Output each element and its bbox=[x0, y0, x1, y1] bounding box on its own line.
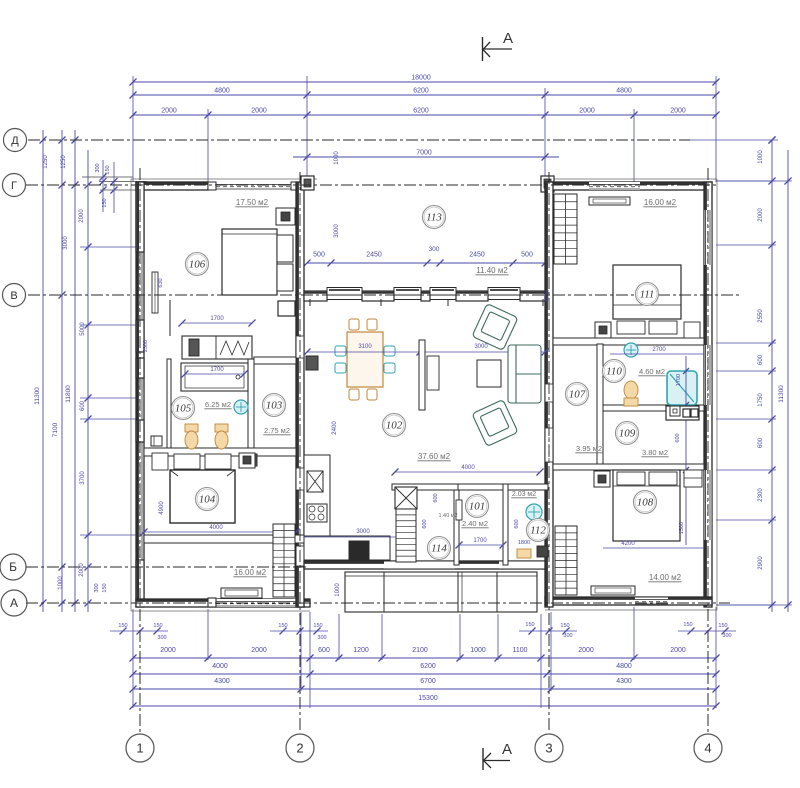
wardrobe room 111 bbox=[554, 194, 577, 264]
sink room 110 bbox=[624, 343, 638, 357]
svg-text:1700: 1700 bbox=[210, 367, 224, 373]
svg-text:2000: 2000 bbox=[670, 108, 686, 115]
svg-text:4900: 4900 bbox=[159, 501, 165, 515]
dim 3000 kitchen bbox=[304, 536, 396, 538]
svg-text:1100: 1100 bbox=[512, 647, 527, 654]
svg-text:2000: 2000 bbox=[758, 208, 764, 222]
wall between 114 and 101 bbox=[454, 490, 459, 565]
dimension chain top 18000 bbox=[133, 81, 716, 83]
svg-text:2000: 2000 bbox=[578, 647, 594, 654]
bed pillows room 106 bbox=[277, 235, 293, 262]
svg-text:109: 109 bbox=[619, 428, 636, 440]
svg-text:4800: 4800 bbox=[214, 88, 230, 95]
grid axis line 3 bbox=[548, 172, 550, 733]
sink room 112 bbox=[526, 504, 542, 520]
axis overlay Б bbox=[26, 566, 306, 568]
axis overlay 3 bbox=[548, 172, 550, 733]
sink room 103 bbox=[234, 400, 248, 414]
svg-text:4200: 4200 bbox=[621, 541, 635, 547]
wall right-wing top bbox=[545, 182, 712, 190]
room label 114 bbox=[428, 537, 451, 560]
mini dims top left 300 150 bbox=[82, 176, 133, 178]
left dim chain 11800 bbox=[74, 130, 76, 612]
shaft X box room 114 bbox=[395, 487, 417, 509]
svg-text:11300: 11300 bbox=[778, 385, 785, 403]
coffee table room 102 bbox=[477, 360, 501, 387]
svg-text:4800: 4800 bbox=[616, 663, 632, 670]
svg-text:11300: 11300 bbox=[34, 387, 41, 405]
dimension terrace top 500-2450-300-2450-500 bbox=[307, 262, 545, 264]
svg-text:17.50 м2: 17.50 м2 bbox=[236, 198, 269, 207]
svg-text:2: 2 bbox=[296, 741, 303, 756]
svg-text:3.80 м2: 3.80 м2 bbox=[642, 448, 668, 457]
left dim chain segments bbox=[87, 150, 89, 612]
svg-text:600: 600 bbox=[514, 519, 520, 528]
svg-text:6700: 6700 bbox=[420, 678, 436, 685]
svg-text:300: 300 bbox=[563, 633, 572, 639]
svg-text:7100: 7100 bbox=[52, 422, 59, 437]
bottom chain row 4300-6700-4300 bbox=[133, 688, 716, 690]
wall between rooms 110 and 109 bbox=[603, 405, 704, 411]
svg-text:150: 150 bbox=[153, 623, 162, 629]
svg-text:1000: 1000 bbox=[470, 647, 486, 654]
grid bubble А bbox=[1, 590, 27, 616]
wall between bathrooms and room 104 bbox=[144, 448, 296, 456]
axis overlay Г bbox=[26, 184, 716, 186]
dim 1700 bathtub bbox=[185, 373, 244, 375]
wall left-wing top bbox=[136, 182, 208, 190]
svg-text:1.40 м2: 1.40 м2 bbox=[438, 513, 457, 519]
grid bubble 1 bbox=[126, 734, 154, 762]
nightstand dark room 111 bbox=[595, 322, 611, 338]
svg-text:600: 600 bbox=[318, 647, 330, 654]
wall left-wing right (axis 2) bbox=[296, 182, 304, 607]
dark box room 112 bbox=[537, 546, 548, 557]
svg-text:150: 150 bbox=[118, 623, 127, 629]
right dim chain segments bbox=[771, 140, 773, 612]
room label 108 bbox=[634, 491, 657, 514]
svg-text:2700: 2700 bbox=[652, 347, 666, 353]
dimension chain top 2000s-6200 bbox=[133, 114, 716, 116]
armchair bottom room 102 bbox=[472, 400, 518, 447]
svg-text:3: 3 bbox=[545, 741, 552, 756]
svg-text:104: 104 bbox=[199, 494, 216, 506]
dim extension line x686 bbox=[685, 356, 687, 545]
room label 111 bbox=[636, 283, 659, 306]
shelf ladder left terrace bbox=[273, 524, 295, 597]
armchair top room 102 bbox=[472, 304, 518, 351]
svg-text:4300: 4300 bbox=[214, 678, 230, 685]
svg-text:2000: 2000 bbox=[251, 647, 267, 654]
svg-text:1800: 1800 bbox=[518, 540, 530, 546]
nightstand dark right room 104 bbox=[239, 453, 255, 468]
svg-text:1000: 1000 bbox=[334, 151, 340, 165]
extension lines bottom bbox=[132, 609, 134, 708]
left dim chain outer 11300 bbox=[42, 130, 44, 612]
svg-text:300: 300 bbox=[429, 246, 440, 253]
wall left-wing bottom bbox=[136, 599, 310, 607]
pillows room 108 bbox=[617, 472, 645, 485]
svg-text:1200: 1200 bbox=[353, 647, 369, 654]
pillows room 111 bbox=[617, 321, 645, 334]
svg-text:1700: 1700 bbox=[473, 538, 487, 544]
svg-text:A: A bbox=[502, 741, 512, 758]
nightstand right room 111 bbox=[684, 322, 700, 338]
svg-text:4.60 м2: 4.60 м2 bbox=[639, 367, 665, 376]
svg-text:2450: 2450 bbox=[469, 252, 485, 259]
washbasin counter room 105 bbox=[182, 336, 252, 359]
wall stub room 106 left of bath bbox=[169, 300, 171, 336]
dim 2700 room 110 bbox=[610, 353, 704, 355]
svg-text:300: 300 bbox=[722, 633, 731, 639]
wall segment above room 103 bbox=[254, 357, 296, 364]
room label 112 bbox=[527, 519, 550, 542]
svg-text:11.40 м2: 11.40 м2 bbox=[476, 266, 508, 275]
grid bubble Г bbox=[3, 174, 26, 197]
svg-text:2300: 2300 bbox=[143, 340, 149, 352]
svg-text:6.25 м2: 6.25 м2 bbox=[205, 400, 231, 409]
wall middle bottom bbox=[304, 561, 548, 569]
room label 101 bbox=[466, 495, 489, 518]
svg-text:112: 112 bbox=[530, 525, 546, 537]
svg-text:107: 107 bbox=[569, 389, 586, 401]
svg-text:1250: 1250 bbox=[43, 155, 49, 169]
svg-text:600: 600 bbox=[422, 519, 428, 528]
svg-text:113: 113 bbox=[426, 212, 442, 224]
bed room 108 bbox=[613, 470, 680, 541]
wall middle on axis В with windows bbox=[304, 294, 548, 296]
svg-text:101: 101 bbox=[469, 501, 486, 513]
svg-text:105: 105 bbox=[175, 403, 192, 415]
axis overlay Д bbox=[28, 139, 690, 141]
grid axis line В bbox=[28, 294, 740, 296]
left dim chain 7100 bbox=[61, 130, 63, 612]
svg-text:103: 103 bbox=[266, 400, 283, 412]
svg-text:1000: 1000 bbox=[758, 150, 764, 164]
svg-text:5000: 5000 bbox=[80, 322, 86, 336]
grid axis line Б bbox=[26, 566, 306, 568]
svg-text:600: 600 bbox=[675, 433, 681, 442]
shelf room 111 top bbox=[589, 197, 630, 205]
room label 110 bbox=[603, 360, 626, 383]
grid axis line 2 bbox=[299, 172, 301, 733]
svg-text:110: 110 bbox=[606, 366, 622, 378]
svg-text:Б: Б bbox=[9, 560, 17, 574]
room label 103 bbox=[263, 394, 286, 417]
kitchen sink bbox=[307, 471, 323, 492]
svg-text:4: 4 bbox=[704, 741, 711, 756]
svg-text:600: 600 bbox=[758, 437, 764, 448]
svg-text:7000: 7000 bbox=[416, 150, 432, 157]
kitchen counter vertical bbox=[304, 455, 330, 536]
table on left terrace bbox=[221, 588, 262, 598]
terrace column right bbox=[541, 176, 554, 192]
nightstand left room 104 bbox=[152, 453, 168, 470]
wall left-wing left bbox=[136, 182, 144, 607]
axis overlay В bbox=[28, 294, 740, 296]
svg-text:Д: Д bbox=[11, 135, 19, 147]
svg-text:2000: 2000 bbox=[251, 108, 267, 115]
column pier near kitchen top bbox=[306, 356, 318, 370]
svg-text:150: 150 bbox=[105, 165, 111, 174]
bottom mini dims axis3 bbox=[519, 630, 577, 632]
svg-text:2000: 2000 bbox=[79, 209, 85, 223]
bed room 111 bbox=[613, 265, 681, 319]
svg-text:2550: 2550 bbox=[758, 309, 764, 323]
toilet 1 room 105 bbox=[185, 424, 198, 432]
pillows room 104 bbox=[174, 454, 200, 469]
svg-text:150: 150 bbox=[102, 198, 108, 207]
bathtub room 105 bbox=[181, 363, 248, 391]
section mark A top bbox=[482, 37, 484, 61]
svg-text:1500: 1500 bbox=[679, 522, 685, 534]
svg-text:11800: 11800 bbox=[65, 385, 72, 403]
toilet room 112 bbox=[517, 549, 531, 558]
svg-text:3.95 м2: 3.95 м2 bbox=[576, 444, 602, 453]
wall right-wing left (axis 3) bbox=[545, 182, 553, 607]
wardrobe small room 108 bbox=[684, 470, 702, 487]
svg-text:1750: 1750 bbox=[758, 393, 764, 407]
svg-text:3100: 3100 bbox=[358, 344, 372, 350]
svg-text:A: A bbox=[503, 30, 513, 47]
dim 3100 3000 room 102 bbox=[307, 351, 545, 353]
svg-text:150: 150 bbox=[683, 622, 692, 628]
grid axis line А bbox=[26, 602, 730, 604]
bottom mini dims axis4 bbox=[678, 630, 736, 632]
dim 4000 room 104 bbox=[144, 531, 296, 533]
grid axis line Д bbox=[28, 139, 690, 141]
svg-text:3000: 3000 bbox=[356, 529, 370, 535]
bed in room 106 bbox=[222, 229, 277, 295]
dimension chain top 4800-6200-4800 bbox=[133, 94, 716, 96]
svg-text:2000: 2000 bbox=[79, 563, 85, 577]
svg-text:300: 300 bbox=[94, 583, 100, 592]
svg-text:2100: 2100 bbox=[412, 647, 428, 654]
svg-text:108: 108 bbox=[637, 497, 654, 509]
svg-text:500: 500 bbox=[521, 252, 533, 259]
bottom chain row 15300 bbox=[133, 705, 716, 707]
svg-text:4030: 4030 bbox=[545, 290, 551, 302]
svg-text:2000: 2000 bbox=[161, 108, 177, 115]
svg-text:150: 150 bbox=[718, 623, 727, 629]
svg-text:630: 630 bbox=[158, 278, 164, 287]
svg-text:6200: 6200 bbox=[413, 108, 429, 115]
dimension 7000 above terrace bbox=[293, 156, 559, 158]
washing machine room 109 bbox=[666, 406, 699, 420]
axis overlay 4 bbox=[707, 168, 709, 733]
svg-text:1000: 1000 bbox=[335, 583, 341, 597]
kitchen dark oven bbox=[349, 541, 369, 560]
axis overlay 2 bbox=[299, 172, 301, 733]
svg-text:3000: 3000 bbox=[334, 224, 340, 238]
svg-text:18000: 18000 bbox=[411, 75, 431, 82]
kitchen stove bbox=[307, 504, 327, 522]
tv unit room 102 bbox=[419, 340, 425, 410]
bed room 104 bbox=[170, 470, 235, 523]
svg-text:В: В bbox=[10, 290, 17, 302]
svg-text:600: 600 bbox=[80, 400, 86, 411]
electric panel box on left wall bbox=[151, 436, 162, 446]
right ticks connector lines bbox=[716, 180, 776, 182]
tv cabinet room 106 bbox=[276, 208, 295, 225]
bottom chain row 4000-6200-4800 bbox=[133, 673, 716, 675]
sofa room 102 bbox=[508, 345, 541, 403]
porch divider lines bbox=[383, 572, 385, 612]
wardrobe shelves left room 108 bbox=[555, 526, 577, 595]
svg-text:Г: Г bbox=[11, 180, 17, 192]
grid axis line 4 bbox=[707, 168, 709, 733]
svg-text:15300: 15300 bbox=[418, 695, 438, 702]
svg-text:3000: 3000 bbox=[474, 344, 488, 350]
window piers on left wall bbox=[136, 182, 144, 252]
svg-text:3000: 3000 bbox=[63, 236, 69, 250]
svg-text:6200: 6200 bbox=[413, 88, 429, 95]
dim 4200 room 108 bbox=[603, 547, 704, 549]
bottom mini dims axis2 bbox=[270, 630, 328, 632]
room label 107 bbox=[566, 383, 589, 406]
dim 1700 room 101 area bbox=[459, 544, 503, 546]
grid bubble В bbox=[3, 284, 26, 307]
svg-text:4000: 4000 bbox=[209, 525, 223, 531]
svg-text:2300: 2300 bbox=[758, 488, 764, 502]
svg-text:2400: 2400 bbox=[332, 421, 338, 435]
svg-text:4000: 4000 bbox=[212, 663, 228, 670]
section mark A bottom bbox=[482, 748, 484, 770]
kitchen counter bottom bbox=[304, 536, 390, 560]
grid bubble 3 bbox=[535, 734, 563, 762]
wall left of room 105 bbox=[167, 359, 171, 448]
room label 105 bbox=[172, 397, 195, 420]
axis overlay А bbox=[26, 602, 730, 604]
svg-text:6200: 6200 bbox=[420, 663, 436, 670]
dim 1700 washbasins bbox=[182, 322, 252, 324]
sink narrow room 101 bbox=[456, 500, 462, 520]
svg-text:3700: 3700 bbox=[80, 471, 86, 485]
radiator room 106 bbox=[152, 272, 158, 313]
svg-text:1250: 1250 bbox=[61, 155, 67, 169]
dining chairs cyan sides bbox=[335, 346, 346, 356]
grid bubble Д bbox=[4, 129, 27, 152]
room label 113 bbox=[423, 206, 446, 229]
wall top of rooms 101 112 bbox=[458, 484, 548, 490]
room label 109 bbox=[616, 422, 639, 445]
svg-text:150: 150 bbox=[313, 623, 322, 629]
svg-text:106: 106 bbox=[189, 259, 206, 271]
svg-text:1000: 1000 bbox=[58, 576, 64, 590]
svg-text:2.75 м2: 2.75 м2 bbox=[264, 426, 290, 435]
room label 106 bbox=[186, 253, 209, 276]
svg-text:150: 150 bbox=[525, 622, 534, 628]
bottom mini dims axis1 bbox=[110, 630, 168, 632]
bottom chain row small segments bbox=[133, 657, 716, 659]
svg-text:102: 102 bbox=[386, 420, 403, 432]
svg-text:А: А bbox=[10, 596, 18, 610]
svg-text:300: 300 bbox=[317, 635, 326, 641]
svg-text:2000: 2000 bbox=[160, 647, 176, 654]
column pier below wall 103 bbox=[246, 454, 257, 466]
wall between room 104 and terrace bbox=[144, 535, 304, 543]
svg-text:2.40 м2: 2.40 м2 bbox=[462, 519, 488, 528]
right dim chain outer 11300 bbox=[787, 150, 789, 612]
wall left of stair shaft 114 bbox=[392, 484, 458, 490]
svg-text:150: 150 bbox=[560, 623, 569, 629]
svg-text:150: 150 bbox=[278, 623, 287, 629]
svg-text:150: 150 bbox=[102, 583, 108, 592]
svg-text:2900: 2900 bbox=[758, 556, 764, 570]
wall above room 108 bbox=[553, 464, 704, 470]
svg-text:114: 114 bbox=[431, 543, 447, 555]
terrace column left bbox=[301, 176, 314, 190]
svg-text:300: 300 bbox=[157, 635, 166, 641]
grid axis line 1 bbox=[139, 168, 141, 733]
wall below room 111 bbox=[553, 338, 704, 345]
toilet room 110 bbox=[624, 381, 638, 399]
wall corridor 107 right bbox=[597, 344, 603, 464]
svg-text:4300: 4300 bbox=[616, 678, 632, 685]
svg-text:37.60 м2: 37.60 м2 bbox=[418, 452, 451, 461]
dim 4000 room 102 bottom bbox=[395, 471, 540, 473]
svg-text:1700: 1700 bbox=[210, 316, 224, 322]
grid bubble 2 bbox=[286, 734, 314, 762]
wall right-wing bottom bbox=[545, 597, 712, 605]
extension lines top bbox=[132, 76, 134, 182]
wall between rooms 105 and 103 bbox=[248, 359, 254, 448]
svg-text:16.00 м2: 16.00 м2 bbox=[644, 198, 677, 207]
svg-text:2000: 2000 bbox=[579, 108, 595, 115]
shower room 110 bbox=[667, 371, 697, 405]
axis overlay 1 bbox=[139, 168, 141, 733]
svg-text:1700: 1700 bbox=[676, 374, 682, 386]
svg-text:111: 111 bbox=[640, 289, 655, 301]
nightstand dark room 108 bbox=[594, 471, 610, 487]
svg-text:600: 600 bbox=[758, 354, 764, 365]
svg-text:2.03 м2: 2.03 м2 bbox=[512, 491, 536, 498]
svg-text:500: 500 bbox=[313, 252, 325, 259]
grid bubble 4 bbox=[694, 734, 722, 762]
svg-text:14.00 м2: 14.00 м2 bbox=[649, 573, 682, 582]
svg-text:600: 600 bbox=[433, 493, 439, 502]
grid axis line Г bbox=[26, 184, 716, 186]
dining table room 102 bbox=[347, 332, 383, 387]
left ticks connector lines bbox=[30, 139, 95, 141]
bench bottom room 108 bbox=[591, 586, 635, 595]
room label 104 bbox=[196, 488, 219, 511]
outer contour offset line bbox=[131, 178, 317, 180]
svg-text:1: 1 bbox=[136, 741, 143, 756]
svg-text:2000: 2000 bbox=[670, 647, 686, 654]
grid bubble Б bbox=[0, 554, 26, 580]
svg-text:2450: 2450 bbox=[366, 252, 382, 259]
wall right-wing right (axis 4) bbox=[704, 182, 712, 607]
porch outline bbox=[345, 572, 537, 612]
door jamb block near axis 2 wall bbox=[278, 301, 295, 316]
svg-text:4800: 4800 bbox=[616, 88, 632, 95]
svg-text:16.00 м2: 16.00 м2 bbox=[234, 568, 267, 577]
ladder room 114 bbox=[396, 509, 416, 562]
svg-text:300: 300 bbox=[95, 163, 101, 172]
wall between 101 and 112 bbox=[503, 484, 508, 565]
toilet 2 room 105 bbox=[215, 424, 228, 432]
room label 102 bbox=[383, 414, 406, 437]
svg-text:4000: 4000 bbox=[461, 465, 475, 471]
